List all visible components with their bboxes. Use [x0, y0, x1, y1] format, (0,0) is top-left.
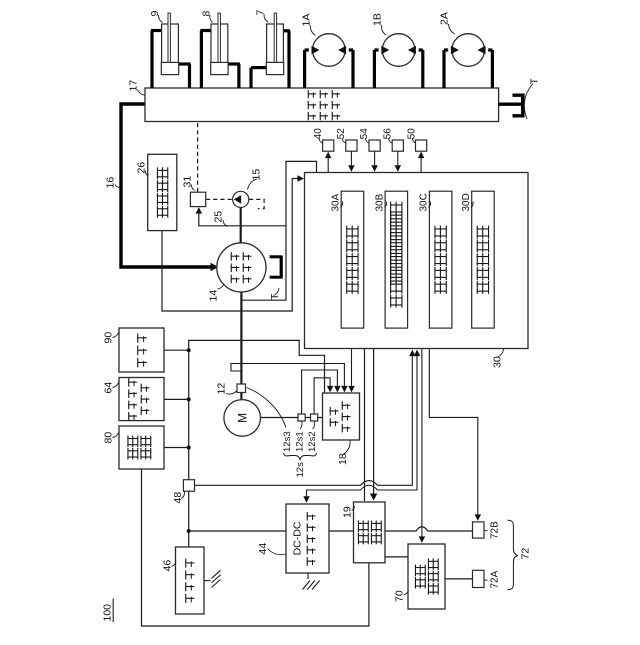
svg-text:30B: 30B [375, 193, 386, 211]
svg-text:30A: 30A [331, 193, 342, 211]
svg-text:46: 46 [162, 560, 174, 572]
svg-text:12: 12 [216, 383, 228, 395]
svg-text:19: 19 [342, 506, 354, 518]
svg-text:T: T [529, 78, 541, 85]
svg-text:72: 72 [520, 548, 532, 560]
svg-text:30: 30 [492, 356, 504, 368]
svg-text:12s3: 12s3 [282, 431, 293, 452]
svg-text:72B: 72B [490, 521, 501, 539]
svg-text:14: 14 [208, 290, 220, 302]
svg-text:8: 8 [201, 11, 213, 17]
svg-text:1B: 1B [372, 13, 384, 26]
svg-text:16: 16 [105, 177, 117, 189]
svg-text:7: 7 [255, 10, 267, 16]
svg-text:DC-DC: DC-DC [292, 521, 304, 555]
svg-text:T: T [269, 293, 281, 300]
svg-text:52: 52 [336, 128, 347, 140]
svg-text:50: 50 [406, 128, 417, 140]
svg-text:30C: 30C [419, 193, 430, 211]
svg-text:2A: 2A [439, 12, 451, 25]
svg-text:12s: 12s [295, 462, 306, 478]
svg-text:18: 18 [337, 453, 349, 465]
svg-text:72A: 72A [490, 570, 501, 588]
svg-text:12s2: 12s2 [307, 431, 318, 452]
svg-text:44: 44 [257, 543, 269, 555]
svg-text:54: 54 [359, 128, 370, 140]
svg-text:40: 40 [313, 128, 324, 140]
svg-text:56: 56 [382, 128, 393, 140]
svg-text:30D: 30D [461, 193, 472, 211]
svg-text:70: 70 [394, 590, 406, 602]
svg-text:100: 100 [102, 604, 114, 622]
svg-text:1A: 1A [301, 14, 313, 27]
svg-text:9: 9 [149, 11, 161, 17]
svg-text:12s1: 12s1 [295, 431, 306, 452]
svg-text:M: M [235, 413, 249, 423]
